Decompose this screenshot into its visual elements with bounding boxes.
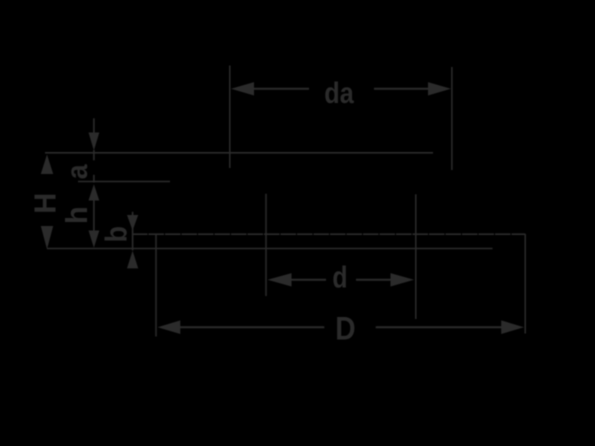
svg-text:a: a: [61, 164, 95, 179]
svg-text:d: d: [332, 260, 347, 294]
svg-text:b: b: [100, 226, 134, 242]
svg-text:h: h: [60, 206, 94, 224]
svg-text:D: D: [335, 312, 355, 347]
svg-text:H: H: [29, 193, 63, 214]
svg-text:da: da: [324, 76, 354, 110]
